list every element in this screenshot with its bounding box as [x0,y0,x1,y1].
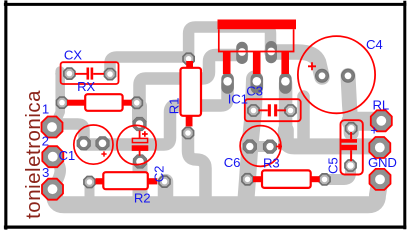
IC U1 pin 5 [281,52,289,75]
svg-text:RX: RX [77,79,95,94]
pad + supply octagon [369,137,390,158]
svg-text:C2: C2 [152,166,167,182]
wire R1.top up and over to back pad2 [189,27,271,59]
wire net OUT: back pad2 wide band to C4.left [272,52,322,77]
pad input 2 octagon [42,146,63,167]
wire C6 pads bridge [250,141,270,152]
wire C5.top area to RL octagon [351,112,374,131]
pad RX.2 [131,97,142,108]
pad R2.1 [84,176,95,187]
capacitor C2 circle [117,125,156,164]
pad IC1 pin2 oval [236,42,248,64]
pad C5.1 [346,123,357,134]
pad C4.plus [316,69,329,82]
pad C1.minus [77,137,90,150]
svg-text:C6: C6 [224,155,240,170]
pad C3.1 [248,105,259,116]
svg-text:R1: R1 [167,98,182,114]
pad R2.2 [159,176,170,187]
wire net RX.2/C2.top to IC back pad1 [140,55,243,122]
pad C4.minus [342,69,355,82]
wire C2.bottom to rail [133,162,148,198]
pad C1.plus [96,137,109,150]
pad R3.1 [242,174,253,185]
capacitor C6 circle [240,126,281,167]
svg-text:GND: GND [368,155,397,170]
IC U1 body top bar [218,20,297,30]
wire net C1-C2-IC pin1: horizontal band through C1 and C2, up right of C2, right, up to IC front pad1 [84,84,228,145]
svg-text:R3: R3 [263,155,279,170]
pad R3.2 [319,174,330,185]
capacitor C5 outline box [341,120,363,174]
capacitor C4 circle [298,36,375,113]
border top [4,3,406,6]
IC U1 pin 3 [253,52,261,75]
capacitor CX outline box [61,62,119,84]
pad IC1 pin3 oval [251,73,264,94]
pad IC1 pin5 oval [279,73,292,94]
capacitor CX symbol [75,68,104,80]
wire pad2 to pad3 [54,158,61,187]
plus mark C6 [276,144,282,150]
capacitor C1 circle [74,125,113,164]
pad GND octagon [370,169,391,190]
pad C3.2 [285,105,296,116]
pad C2.minus [133,155,146,168]
IC U1 body outline [219,29,294,51]
pad RL octagon [371,110,392,131]
resistor RX [67,94,132,111]
svg-text:C5: C5 [326,158,341,174]
pad IC1 pin1 oval [221,73,234,94]
pad input 1 octagon [42,117,63,138]
svg-text:C1: C1 [59,148,75,163]
wire net CX.2/R1.top to IC back pad2 [110,57,189,74]
resistor R1 (vertical) [181,61,202,126]
wire +V corner to + octagon [286,130,380,148]
wire +V branch vertical stub [297,97,310,141]
pad input 3 octagon [42,179,63,200]
pad R1.2 [182,127,193,138]
pad C2.plus [133,117,146,130]
wire stub CX.1 [60,69,68,79]
border right [403,1,406,230]
wire ground rail along bottom to GND octagon [55,181,381,205]
svg-text:R2: R2 [134,191,150,206]
border left [4,0,7,229]
pad R1.1 [183,53,194,64]
svg-text:IC1: IC1 [228,91,248,106]
border bottom [4,226,406,229]
plus mark C4 [308,62,316,70]
plus mark C2 [142,131,148,137]
svg-text:+: + [370,123,378,138]
wire net GND column: IC front pad2, C3.left, C6.left, R3.left to rail [246,79,255,199]
capacitor C3 symbol [259,104,287,116]
wire pad1 to C1.left [54,124,84,143]
wire R2.left to rail [85,183,95,197]
svg-text:C4: C4 [366,37,382,52]
capacitor C3 outline box [245,99,301,121]
svg-text:tonieletronica: tonieletronica [22,90,45,219]
wire R2.right to rail [158,182,174,198]
pad C6.minus [243,140,256,153]
IC U1 pin 1 [223,52,231,75]
wire net IN: CX.1 / RX.1 vertical [55,71,60,124]
pad IC1 pin4 oval [265,41,277,63]
pad RX.1 [56,97,67,108]
svg-text:C3: C3 [246,84,262,99]
capacitor C2 polarity plates [132,138,147,142]
wire R1.bottom to ground rail [188,133,206,200]
wire stub C2.top [132,106,147,120]
wire C4.right down to C5.top [348,76,351,134]
resistor R2 [96,172,158,189]
svg-text:CX: CX [64,48,82,63]
resistor R3 [253,170,320,188]
wire C5.bottom to R3.right [325,166,351,180]
pad CX.1 [64,68,75,79]
pad C6.plus [263,140,276,153]
capacitor C5 symbol [341,132,357,161]
pad C5.2 [345,160,356,171]
wire net +V: IC front pad3, C3.right, down, right to + octagon [279,83,293,132]
pad CX.2 [104,69,115,80]
plus mark C1 [101,151,106,156]
svg-text:RL: RL [373,98,389,113]
